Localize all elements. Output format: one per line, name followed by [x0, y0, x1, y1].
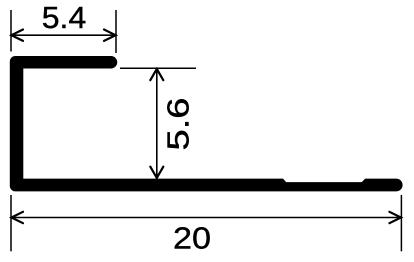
- dimension 5.6 up arrowhead: [150, 69, 163, 80]
- dimension 20 extension line left: [10, 195, 12, 251]
- dimension 20 extension line right: [400, 195, 402, 251]
- dimension 5.4 extension line left: [10, 10, 12, 52]
- dimension 5.4 dimension line: [11, 34, 116, 36]
- dimension 20 right arrowhead: [389, 212, 401, 223]
- dimension 5.4 extension line right: [115, 10, 117, 53]
- dimension 5.6 extension line top: [120, 67, 196, 69]
- svg-text:5.4: 5.4: [42, 1, 87, 35]
- dimension 20 dimension line: [11, 217, 401, 219]
- dimension 20 left arrowhead: [11, 212, 23, 223]
- dimension 5.4 left arrowhead: [11, 30, 23, 41]
- dimension 5.6 dimension line: [156, 68, 158, 178]
- dimension 5.6 down arrowhead: [150, 167, 163, 178]
- dimension 5.4 right arrowhead: [104, 30, 116, 41]
- svg-text:20: 20: [173, 221, 211, 255]
- svg-text:5.6: 5.6: [162, 98, 196, 151]
- profile cross-section (J-shaped edge trim): [10, 56, 403, 191]
